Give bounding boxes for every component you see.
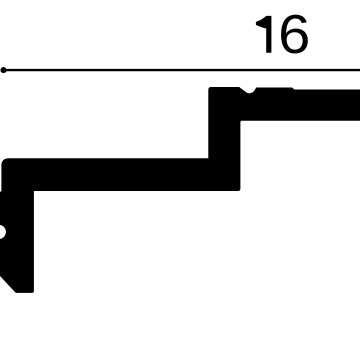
svg-text:6: 6 [278,4,310,65]
dimension line (width 16) [4,69,360,71]
dimension end dot [0,67,6,73]
dimension label digit 1 [256,16,272,53]
dimension label digit 6 [278,4,310,65]
moulding profile cross-section [0,87,360,293]
